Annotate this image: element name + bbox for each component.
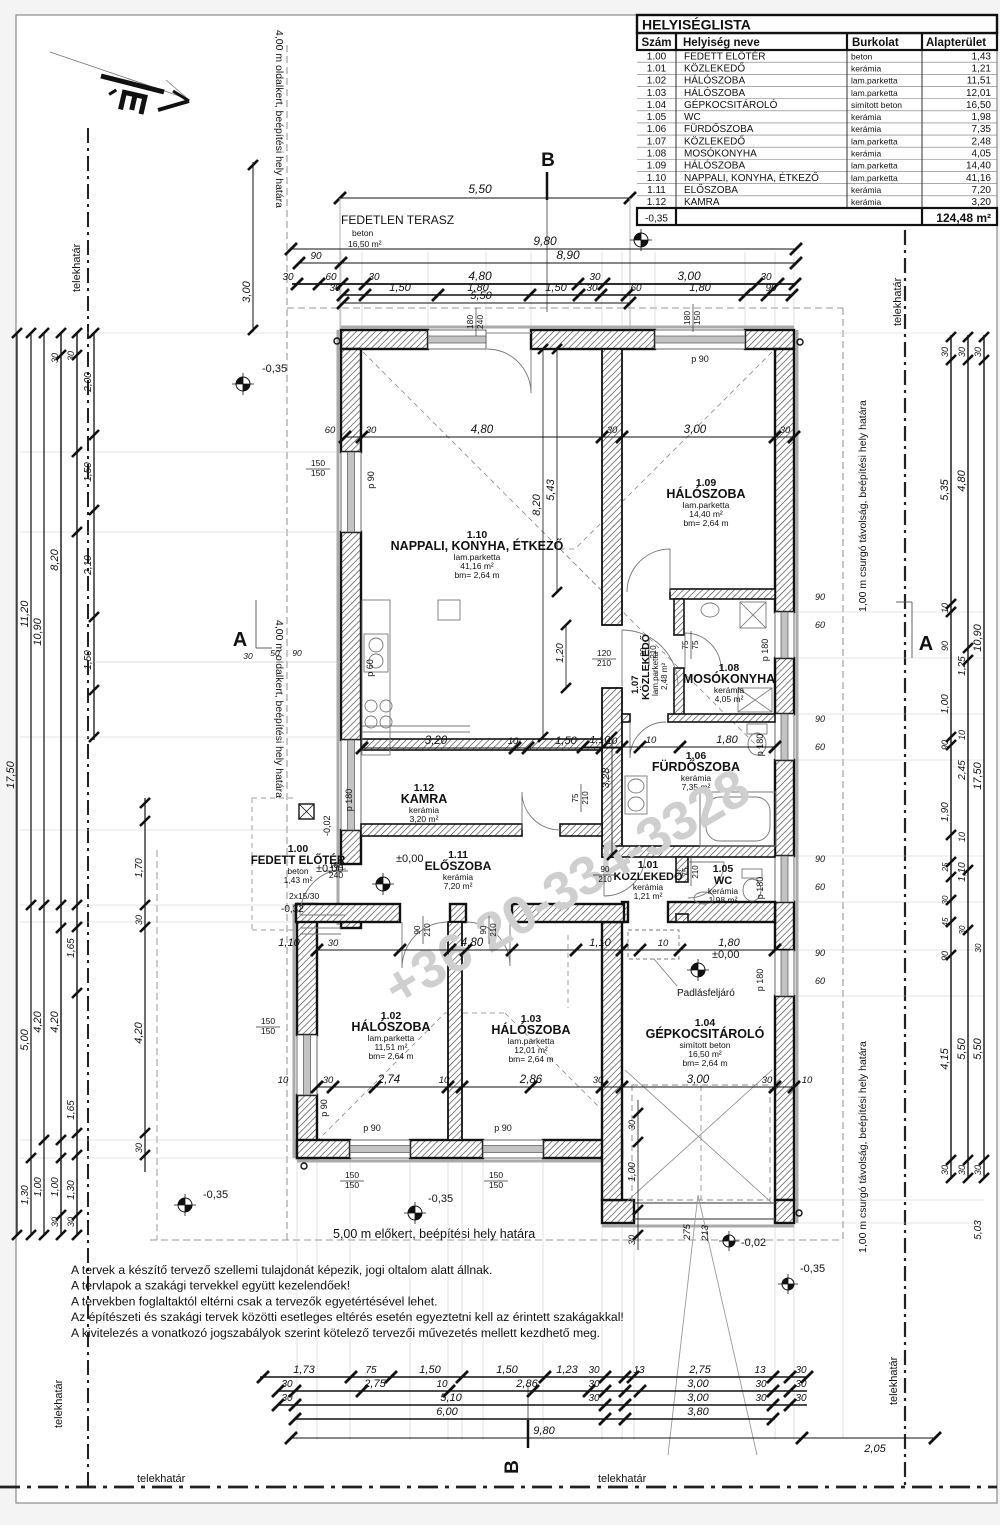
svg-text:lam.parketta: lam.parketta (851, 76, 898, 86)
svg-text:4,20: 4,20 (49, 1010, 61, 1032)
svg-text:210: 210 (423, 923, 432, 937)
svg-text:simított beton: simított beton (851, 100, 902, 110)
svg-text:4,05 m²: 4,05 m² (715, 694, 744, 704)
svg-text:3,80: 3,80 (687, 1406, 709, 1418)
svg-text:30: 30 (755, 1393, 767, 1404)
svg-text:5,00 m előkert, beépítési hely: 5,00 m előkert, beépítési hely határa (333, 1227, 535, 1241)
svg-text:NAPPALI, KONYHA, ÉTKEZŐ: NAPPALI, KONYHA, ÉTKEZŐ (391, 538, 564, 553)
svg-text:180: 180 (329, 860, 343, 870)
svg-text:1,30: 1,30 (66, 1180, 77, 1200)
svg-text:30: 30 (607, 425, 618, 436)
dim top 8,90 (299, 262, 796, 264)
svg-text:kerámia: kerámia (851, 63, 882, 73)
kitchen counter along kamra wall (362, 725, 470, 727)
svg-text:bm= 2,64 m: bm= 2,64 m (683, 518, 728, 528)
svg-text:1,50: 1,50 (389, 282, 411, 294)
svg-text:30: 30 (588, 1393, 600, 1404)
svg-text:30: 30 (588, 1365, 600, 1376)
svg-text:5,50: 5,50 (468, 182, 492, 196)
wall east segment 5 (775, 996, 794, 1200)
dim interior fürdő 1,80 (583, 746, 775, 748)
svg-text:8,20: 8,20 (49, 548, 61, 570)
door bedroom 1.03 (466, 922, 510, 966)
wall interior corridor/mosókonyha 2 (674, 668, 684, 716)
wall interior fürdő north (668, 714, 775, 722)
svg-text:45: 45 (941, 917, 950, 926)
svg-text:1,70: 1,70 (134, 858, 145, 878)
svg-text:A tervek a készítő tervező sze: A tervek a készítő tervező szellemi tula… (71, 1263, 492, 1277)
svg-text:4,00 m oldalkert, beépítési he: 4,00 m oldalkert, beépítési hely határa (273, 30, 285, 208)
svg-text:30: 30 (50, 353, 60, 363)
window south bedroom2 p90 (483, 1140, 543, 1158)
svg-text:16,50 m²: 16,50 m² (348, 239, 382, 249)
svg-text:1,98: 1,98 (972, 112, 992, 123)
dim bottom row1 (260, 1376, 807, 1378)
kitchen sink (364, 634, 388, 672)
svg-text:1.05: 1.05 (713, 863, 734, 875)
window bedroom west p90 (297, 1035, 317, 1095)
svg-text:90: 90 (815, 592, 825, 602)
svg-text:ELŐSZOBA: ELŐSZOBA (425, 858, 492, 873)
svg-text:1,80: 1,80 (716, 734, 738, 746)
wall west segment 1 (341, 349, 361, 452)
svg-text:1.12: 1.12 (647, 197, 667, 208)
svg-text:2,45: 2,45 (957, 760, 968, 781)
wall south segment 1 (297, 1140, 350, 1158)
svg-text:A tervlapok a szakági tervekke: A tervlapok a szakági tervekkel együtt k… (71, 1279, 350, 1293)
dim interior 3,28 (611, 737, 613, 855)
svg-text:30: 30 (780, 425, 791, 436)
svg-text:-0,35: -0,35 (262, 363, 287, 375)
dim left 8,20 (60, 333, 62, 1235)
wall interior fürdő south (602, 846, 775, 857)
svg-text:1.06: 1.06 (647, 124, 667, 135)
drain circle NW (334, 338, 340, 344)
svg-text:30: 30 (134, 915, 144, 925)
svg-text:4,80: 4,80 (468, 269, 492, 283)
svg-text:30: 30 (627, 1235, 637, 1245)
svg-text:210: 210 (489, 923, 498, 937)
svg-text:lam.parketta: lam.parketta (851, 161, 898, 171)
svg-text:kerámia: kerámia (851, 112, 882, 122)
washer mosókonyha (740, 602, 766, 628)
svg-text:p 90: p 90 (366, 471, 376, 489)
svg-text:4,15: 4,15 (939, 1047, 951, 1069)
wall garage north stub (622, 902, 628, 922)
svg-text:30: 30 (795, 1393, 807, 1404)
svg-text:1,23: 1,23 (556, 1364, 578, 1376)
svg-text:150: 150 (489, 1170, 503, 1180)
svg-text:2,86: 2,86 (515, 1378, 538, 1390)
svg-text:30: 30 (66, 1217, 76, 1227)
svg-text:WC: WC (684, 112, 701, 123)
svg-text:HÁLÓSZOBA: HÁLÓSZOBA (684, 159, 745, 172)
mosókonyha sink (701, 603, 719, 617)
svg-text:30: 30 (281, 1379, 293, 1390)
wall interior corridor/mosókonyha 1 (674, 599, 684, 635)
svg-text:1.08: 1.08 (647, 149, 667, 160)
svg-text:10: 10 (957, 832, 967, 842)
svg-text:240: 240 (329, 870, 343, 880)
garage door swing lines (668, 1195, 698, 1455)
wall east segment 1 (775, 349, 794, 612)
dim interior 8,20 (542, 349, 544, 737)
window west kamra p180 (341, 740, 361, 830)
svg-text:1.05: 1.05 (647, 112, 667, 123)
svg-text:MOSÓKONYHA: MOSÓKONYHA (684, 147, 757, 160)
svg-text:30: 30 (973, 347, 983, 357)
svg-text:-0,35: -0,35 (428, 1193, 453, 1205)
wall west segment 4 (341, 912, 361, 928)
svg-text:3,00: 3,00 (684, 424, 707, 436)
wall garage south segment 2 (775, 1200, 794, 1223)
svg-text:1,00: 1,00 (940, 694, 951, 714)
svg-text:90: 90 (639, 647, 648, 656)
svg-text:kerámia: kerámia (851, 149, 882, 159)
svg-text:telekhatár: telekhatár (71, 243, 83, 292)
window west p90 (341, 452, 361, 532)
svg-text:3,00: 3,00 (241, 280, 253, 302)
svg-text:3,20: 3,20 (425, 735, 448, 747)
fedetlen terasz outline + 5,50 dim (340, 197, 630, 199)
dim top 5,50 (343, 302, 630, 304)
svg-text:60: 60 (815, 742, 825, 752)
svg-text:Helyiség neve: Helyiség neve (683, 37, 760, 49)
svg-text:150: 150 (311, 458, 325, 468)
svg-text:30: 30 (940, 347, 950, 357)
svg-text:10: 10 (957, 730, 967, 740)
svg-text:10,90: 10,90 (972, 623, 984, 651)
svg-text:1.04: 1.04 (647, 100, 667, 111)
svg-text:90: 90 (940, 740, 950, 750)
door mosókonyha (685, 633, 721, 669)
door bedroom 1.02 (402, 922, 448, 968)
level marker -0,35 bottom left (174, 1194, 196, 1216)
svg-text:30: 30 (281, 1393, 293, 1404)
svg-text:-0,35: -0,35 (645, 214, 668, 225)
svg-text:30: 30 (66, 351, 76, 361)
svg-text:17,50: 17,50 (972, 761, 984, 789)
window east garage p180 (775, 950, 794, 996)
svg-text:1,00 m csurgó távolság, beépít: 1,00 m csurgó távolság, beépítési hely h… (857, 1041, 869, 1253)
svg-text:p 90: p 90 (319, 1099, 329, 1117)
svg-text:7,20: 7,20 (972, 185, 992, 196)
svg-text:30: 30 (957, 347, 967, 357)
svg-text:1,50: 1,50 (83, 650, 94, 670)
svg-text:9,80: 9,80 (533, 234, 557, 248)
building limit dashed left lower (156, 850, 158, 1240)
svg-text:60: 60 (815, 976, 825, 986)
svg-text:17,50: 17,50 (5, 760, 17, 788)
svg-text:1,10: 1,10 (957, 862, 968, 882)
svg-text:30: 30 (243, 651, 253, 661)
svg-text:3,00: 3,00 (687, 1074, 710, 1086)
level marker ±0,00 porch (372, 873, 394, 895)
svg-text:150: 150 (489, 1180, 503, 1190)
svg-text:1.11: 1.11 (647, 185, 666, 196)
level marker -0,35 left top (232, 373, 254, 395)
guide lines (340, 252, 342, 330)
dim garage interior (637, 1100, 639, 1250)
porch dashed platform (251, 798, 253, 930)
dim left 10,90 (43, 333, 45, 1235)
svg-text:4,20: 4,20 (32, 1010, 44, 1032)
svg-text:1,00: 1,00 (50, 1177, 61, 1197)
svg-text:30: 30 (958, 925, 967, 934)
svg-text:41,16: 41,16 (966, 173, 991, 184)
mosókonyha shower corner (738, 688, 772, 712)
svg-text:1,73: 1,73 (293, 1364, 315, 1376)
dim bottom 9,80 (291, 1437, 935, 1439)
svg-text:9,80: 9,80 (533, 1425, 555, 1437)
svg-text:150: 150 (261, 1026, 275, 1036)
wall west segment 2 (341, 532, 361, 740)
svg-text:150: 150 (345, 1170, 359, 1180)
wall north segment 2 (531, 330, 655, 349)
svg-text:1,98 m²: 1,98 m² (709, 895, 738, 905)
svg-text:Szám: Szám (641, 37, 671, 49)
svg-text:4,05: 4,05 (972, 149, 992, 160)
svg-text:1.00: 1.00 (288, 843, 309, 855)
wall west segment 3 (341, 830, 361, 864)
room list table HELYISÉGLISTA (637, 61, 997, 63)
svg-text:1,43 m²: 1,43 m² (284, 875, 313, 885)
svg-text:8,90: 8,90 (556, 248, 580, 262)
svg-text:A kivitelezés a vonatkozó jogs: A kivitelezés a vonatkozó jogszabályok s… (71, 1326, 600, 1340)
building limit dashed left (286, 45, 288, 1240)
svg-text:p 180: p 180 (760, 639, 770, 662)
svg-text:60: 60 (325, 272, 337, 283)
door north entry (487, 349, 531, 393)
bathroom double washbasin (625, 776, 647, 814)
dim left bedroom chain (144, 798, 146, 1172)
dim interior hall 4,80 (317, 949, 790, 951)
svg-text:A: A (233, 629, 247, 651)
svg-text:30: 30 (328, 938, 339, 949)
svg-text:HELYISÉGLISTA: HELYISÉGLISTA (642, 17, 751, 33)
wall kamra south 2 (560, 824, 602, 836)
svg-text:-0,32: -0,32 (281, 904, 304, 915)
svg-text:ELŐSZOBA: ELŐSZOBA (684, 182, 738, 196)
svg-text:±0,00: ±0,00 (712, 949, 739, 961)
svg-text:1,10: 1,10 (278, 937, 300, 949)
svg-text:1,43: 1,43 (972, 51, 992, 62)
svg-text:p 180: p 180 (344, 789, 354, 812)
svg-text:1,90: 1,90 (940, 802, 951, 822)
roof hip dashed diagonals (344, 333, 618, 607)
svg-text:p 60: p 60 (365, 659, 375, 677)
table footer row (637, 208, 997, 225)
svg-text:HÁLÓSZOBA: HÁLÓSZOBA (684, 86, 745, 99)
dim left chain x94 (93, 333, 95, 740)
svg-text:30: 30 (760, 272, 772, 283)
wall east segment 4 (775, 902, 794, 950)
svg-text:FÜRDŐSZOBA: FÜRDŐSZOBA (684, 121, 754, 135)
door wc (688, 862, 724, 898)
table header row (637, 33, 997, 50)
telekhatár line left (87, 128, 89, 1487)
wall south segment 3 (543, 1140, 622, 1158)
svg-text:30: 30 (593, 1075, 604, 1086)
svg-text:1,50: 1,50 (545, 282, 567, 294)
svg-text:7,20 m²: 7,20 m² (444, 881, 473, 891)
cooktop (365, 700, 377, 712)
svg-text:10: 10 (658, 938, 669, 949)
svg-text:30: 30 (366, 425, 377, 436)
svg-text:11,20: 11,20 (19, 600, 31, 628)
level marker ±0,00 garage (687, 959, 709, 981)
svg-text:5,00: 5,00 (19, 1028, 31, 1050)
svg-text:2,48: 2,48 (972, 136, 992, 147)
svg-text:4,80: 4,80 (461, 937, 484, 949)
wall east segment 3 (775, 760, 794, 856)
svg-text:1,21: 1,21 (972, 63, 992, 74)
svg-text:75: 75 (571, 793, 580, 802)
svg-text:Burkolat: Burkolat (852, 37, 899, 49)
svg-text:6,00: 6,00 (436, 1406, 458, 1418)
svg-text:30: 30 (795, 1379, 807, 1390)
svg-text:4,20: 4,20 (133, 1021, 145, 1043)
door main entry (300, 869, 346, 915)
svg-text:10: 10 (436, 1379, 448, 1390)
svg-text:5,03: 5,03 (973, 1220, 984, 1240)
dim top row4 (343, 294, 793, 296)
svg-text:telekhatár: telekhatár (53, 1379, 65, 1428)
svg-text:-0,35: -0,35 (203, 1189, 228, 1201)
svg-text:Az építészeti és szakági terve: Az építészeti és szakági tervek közötti … (71, 1310, 624, 1324)
svg-text:210: 210 (691, 865, 700, 879)
svg-text:2,75: 2,75 (363, 1378, 386, 1390)
building limit dashed bottom (150, 1239, 843, 1241)
svg-text:10,90: 10,90 (32, 617, 44, 645)
svg-text:1,65: 1,65 (66, 1100, 77, 1120)
svg-text:1,25: 1,25 (957, 656, 968, 676)
wall north segment 1 (341, 330, 428, 349)
wall interior wc/közlekedő 1 (676, 857, 688, 882)
svg-text:124,48 m²: 124,48 m² (936, 211, 991, 225)
svg-text:1,20: 1,20 (555, 643, 566, 663)
svg-text:1,00 m csurgó távolság, beépít: 1,00 m csurgó távolság, beépítési hely h… (857, 400, 869, 612)
svg-text:3,20 m²: 3,20 m² (410, 814, 439, 824)
dim bottom row2 (278, 1390, 807, 1392)
svg-text:7,35: 7,35 (972, 124, 992, 135)
svg-text:213: 213 (700, 1224, 711, 1242)
insulation band (341, 326, 794, 329)
svg-text:60: 60 (325, 425, 336, 436)
svg-text:±0,00: ±0,00 (396, 853, 423, 865)
svg-text:210: 210 (581, 791, 590, 805)
svg-text:bm= 2,64 m: bm= 2,64 m (508, 1054, 553, 1064)
table title row (637, 15, 997, 33)
svg-text:KÖZLEKEDŐ: KÖZLEKEDŐ (684, 60, 745, 74)
svg-text:NAPPALI, KONYHA, ÉTKEZŐ: NAPPALI, KONYHA, ÉTKEZŐ (684, 170, 819, 184)
svg-text:MOSÓKONYHA: MOSÓKONYHA (683, 671, 775, 686)
wall interior fürdő west (602, 688, 622, 857)
dim right chain 1 (950, 335, 952, 1178)
door fürdőszoba (630, 722, 666, 758)
svg-text:bm= 2,64 m: bm= 2,64 m (454, 570, 499, 580)
svg-text:10: 10 (802, 1075, 813, 1086)
wall garage west (602, 922, 622, 1200)
svg-text:120: 120 (597, 648, 611, 658)
dim right chain 3 (983, 335, 985, 1178)
svg-text:150: 150 (345, 1180, 359, 1190)
svg-text:Alapterület: Alapterület (926, 37, 986, 49)
svg-text:30: 30 (329, 283, 341, 294)
svg-text:1,00: 1,00 (627, 1162, 638, 1182)
svg-text:GÉPKOCSITÁROLÓ: GÉPKOCSITÁROLÓ (646, 1026, 765, 1041)
svg-text:FEDETLEN TERASZ: FEDETLEN TERASZ (341, 213, 454, 227)
svg-text:10: 10 (646, 735, 657, 746)
svg-text:275: 275 (682, 1223, 693, 1241)
wall garage north (668, 902, 775, 922)
svg-text:30: 30 (940, 1165, 950, 1175)
svg-text:90: 90 (815, 714, 825, 724)
svg-text:90: 90 (413, 925, 422, 934)
wall south segment 2 (410, 1140, 483, 1158)
svg-text:13: 13 (633, 1365, 645, 1376)
svg-text:30: 30 (50, 1217, 60, 1227)
wall east segment 2 (775, 658, 794, 714)
svg-text:kerámia: kerámia (851, 197, 882, 207)
svg-text:50: 50 (270, 648, 280, 658)
svg-text:A: A (919, 633, 933, 655)
window north 180/240 (428, 330, 486, 349)
svg-text:HÁLÓSZOBA: HÁLÓSZOBA (491, 1022, 570, 1037)
svg-text:2,75: 2,75 (688, 1364, 711, 1376)
dim left 17,50 (16, 333, 18, 1235)
wall hall south segment 2 (512, 904, 624, 922)
svg-text:A tervekben foglaltaktól eltér: A tervekben foglaltaktól eltérni csak a … (71, 1294, 438, 1308)
door opening north entry (486, 332, 531, 334)
svg-text:3,00: 3,00 (677, 269, 701, 283)
dim left inner chain (76, 333, 78, 1235)
svg-text:10: 10 (278, 1075, 289, 1086)
wc basin (694, 892, 714, 904)
svg-text:beton: beton (352, 228, 374, 238)
svg-text:2,00: 2,00 (83, 372, 94, 393)
svg-text:30: 30 (368, 272, 380, 283)
svg-text:beton: beton (851, 51, 873, 61)
svg-text:telekhatár: telekhatár (137, 1473, 186, 1485)
svg-text:240: 240 (475, 315, 485, 329)
svg-text:5,50: 5,50 (956, 1037, 968, 1059)
wall interior nappali/1.09 (602, 349, 622, 625)
svg-text:HÁLÓSZOBA: HÁLÓSZOBA (684, 74, 745, 87)
svg-text:bm= 2,64 m: bm= 2,64 m (368, 1051, 413, 1061)
level marker -0,35 garage front (778, 1274, 798, 1294)
svg-text:150: 150 (692, 311, 702, 325)
svg-text:75: 75 (691, 640, 700, 649)
svg-text:30: 30 (762, 1075, 773, 1086)
svg-text:30: 30 (589, 272, 601, 283)
wall north segment 3 (745, 330, 794, 349)
svg-text:HÁLÓSZOBA: HÁLÓSZOBA (666, 486, 745, 501)
svg-text:1,50: 1,50 (419, 1364, 441, 1376)
svg-text:3,28: 3,28 (600, 768, 612, 789)
svg-text:1.09: 1.09 (647, 161, 667, 172)
svg-text:3,00: 3,00 (687, 1378, 709, 1390)
svg-text:30: 30 (627, 1120, 637, 1130)
wall garage south segment 1 (602, 1200, 634, 1223)
entry steps (300, 927, 341, 929)
svg-text:p 180: p 180 (755, 969, 765, 992)
svg-text:75: 75 (681, 640, 690, 649)
svg-text:kerámia: kerámia (851, 185, 882, 195)
svg-text:4,00 m oldalkert, beépítési he: 4,00 m oldalkert, beépítési hely határa (273, 620, 285, 798)
north arrow É (50, 52, 188, 99)
svg-text:10: 10 (439, 1075, 450, 1086)
